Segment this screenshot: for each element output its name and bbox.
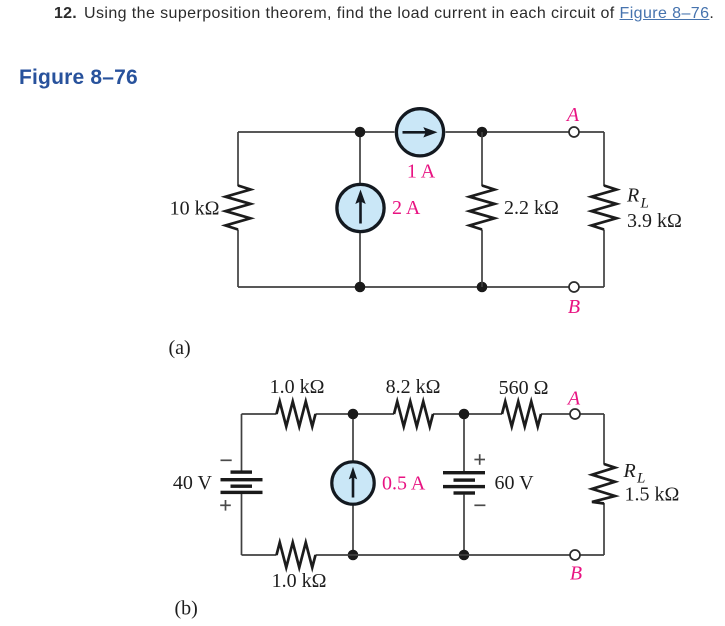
svg-text:1 A: 1 A	[407, 161, 436, 183]
wire: (b) current-source branch upper	[352, 414, 354, 461]
junction dot (b) top node 2	[459, 409, 470, 420]
wire: (b) 60V branch lower	[463, 495, 465, 555]
node label A (a)	[565, 104, 580, 126]
label 0.5 A	[382, 473, 426, 495]
battery 60 V (long-short-long-short bars)	[443, 471, 485, 495]
label RL	[626, 185, 649, 212]
svg-text:560 Ω: 560 Ω	[499, 377, 549, 399]
wire: (a) middle branch lower	[359, 232, 361, 287]
wire: (a) left vertical branch	[237, 132, 239, 287]
terminal A (a) open circle	[569, 127, 579, 137]
terminal B (b) open circle	[570, 550, 580, 560]
svg-text:2 A: 2 A	[392, 197, 421, 219]
junction dot (a) bottom-left node	[355, 282, 366, 293]
svg-text:(b): (b)	[175, 598, 198, 620]
wire: (b) top wire segments	[242, 413, 605, 415]
svg-text:2.2 kΩ: 2.2 kΩ	[504, 197, 559, 219]
label 10 kOhm	[170, 198, 220, 220]
svg-text:40 V: 40 V	[173, 472, 213, 494]
label 560 Ohm	[499, 377, 549, 399]
svg-text:1.0 kΩ: 1.0 kΩ	[270, 376, 325, 398]
resistor 1.0 kOhm (bottom)	[277, 543, 316, 568]
svg-text:(a): (a)	[169, 337, 191, 359]
junction dot (b) bottom node 1	[348, 550, 359, 561]
resistor 2.2 kOhm	[470, 186, 495, 230]
label 1.0 kOhm (top)	[270, 376, 325, 398]
polarity minus (60 V bottom)	[474, 504, 485, 506]
current source 0.5 A (circle with up arrow)	[332, 462, 374, 504]
svg-text:0.5 A: 0.5 A	[382, 473, 426, 495]
polarity minus (40 V top)	[221, 459, 232, 461]
svg-text:B: B	[568, 296, 580, 318]
resistor RL 3.9 kOhm	[592, 186, 617, 230]
svg-text:R: R	[623, 460, 636, 482]
label 1.5 kOhm	[625, 484, 680, 506]
current source 1 A (circle with right arrow)	[396, 109, 443, 156]
svg-text:A: A	[566, 388, 581, 410]
wire: (b) current-source branch lower	[352, 505, 354, 555]
label 60 V	[495, 472, 535, 494]
svg-text:3.9 kΩ: 3.9 kΩ	[627, 210, 682, 232]
wire: (a) bottom wire	[238, 286, 604, 288]
polarity plus (60 V top)	[474, 454, 485, 465]
junction dot (a) bottom-right node	[477, 282, 488, 293]
svg-text:B: B	[570, 563, 582, 585]
wire: (a) top wire right segment	[446, 131, 605, 133]
wire: (a) 2.2k branch lower	[481, 230, 483, 288]
svg-text:60 V: 60 V	[495, 472, 535, 494]
label 3.9 kOhm	[627, 210, 682, 232]
svg-text:1.5 kΩ: 1.5 kΩ	[625, 484, 680, 506]
label 8.2 kOhm	[386, 376, 441, 398]
terminal B (a) open circle	[569, 282, 579, 292]
svg-text:10 kΩ: 10 kΩ	[170, 198, 220, 220]
label RL (b)	[623, 460, 646, 487]
node label B (a)	[568, 296, 580, 318]
caption (b)	[175, 598, 198, 620]
label 40 V	[173, 472, 213, 494]
junction dot (b) top node 1	[348, 409, 359, 420]
junction dot (b) bottom node 2	[459, 550, 470, 561]
wire: (a) top wire left segment	[238, 131, 395, 133]
wire: (b) bottom wire segments	[242, 554, 605, 556]
label 2 A	[392, 197, 421, 219]
junction dot (a) top-left node	[355, 127, 366, 138]
figure caption heading	[19, 66, 138, 90]
polarity plus (40 V bottom)	[220, 500, 231, 511]
resistor 560 Ohm	[502, 402, 541, 427]
resistor RL 1.5 kOhm	[592, 464, 615, 504]
terminal A (b) open circle	[570, 409, 580, 419]
label 2.2 kOhm	[504, 197, 559, 219]
current source 2 A (circle with up arrow)	[337, 184, 384, 231]
wire: (b) 60V branch upper	[463, 414, 465, 471]
resistor 8.2 kOhm	[394, 402, 433, 427]
caption (a)	[169, 337, 191, 359]
svg-text:1.0 kΩ: 1.0 kΩ	[272, 570, 327, 592]
wire: (b) left vertical branch	[241, 414, 243, 555]
label 1 A	[407, 161, 436, 183]
battery 40 V (short-long-short-long bars)	[221, 470, 263, 494]
svg-text:R: R	[626, 185, 639, 207]
svg-text:8.2 kΩ: 8.2 kΩ	[386, 376, 441, 398]
node label B (b)	[570, 563, 582, 585]
resistor 10 kOhm	[226, 186, 251, 230]
resistor 1.0 kOhm (top)	[277, 402, 316, 427]
svg-text:A: A	[565, 104, 580, 126]
wire: (a) middle branch upper	[359, 132, 361, 184]
label 1.0 kOhm (bottom)	[272, 570, 327, 592]
junction dot (a) top-right node	[477, 127, 488, 138]
wire: (a) 2.2k branch upper	[481, 132, 483, 186]
problem statement text	[84, 5, 725, 23]
node label A (b)	[566, 388, 581, 410]
wire: (a) right vertical branch	[603, 132, 605, 287]
wire: (b) right vertical branch	[603, 414, 605, 555]
